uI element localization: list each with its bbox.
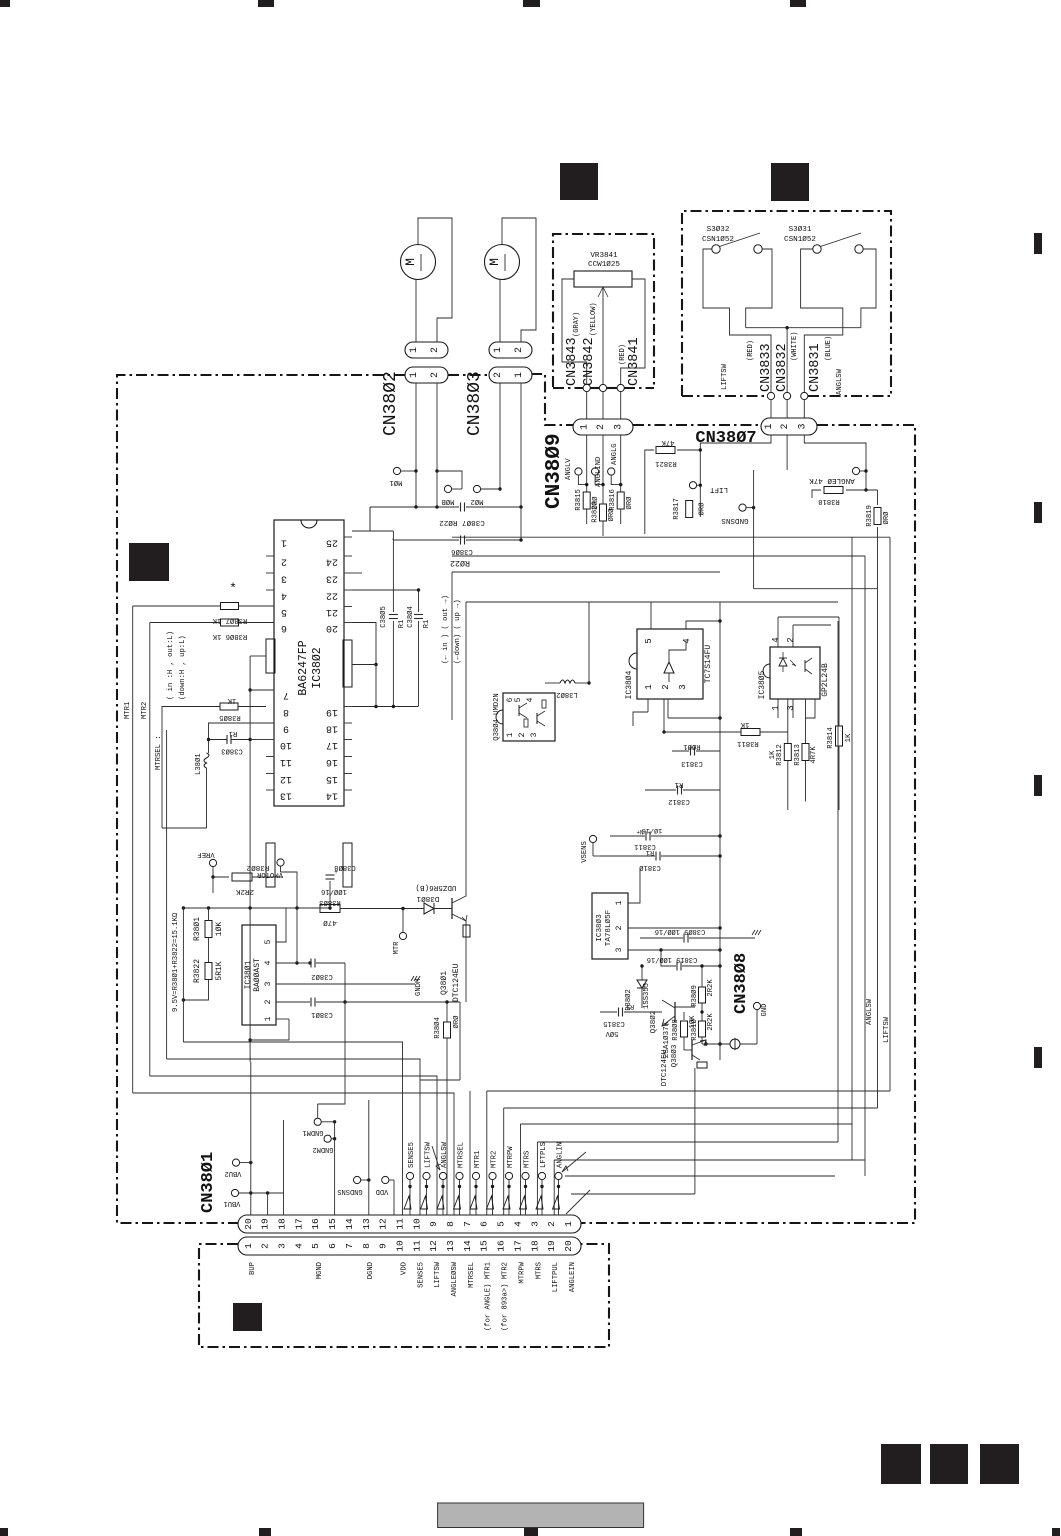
terminal SENSE5 [406, 1172, 413, 1179]
svg-text:2: 2 [596, 424, 607, 430]
bus left verticals [182, 908, 184, 1042]
wire VREF node down [211, 875, 214, 878]
IC3801 pin5 wire to rail [276, 908, 286, 942]
terminal VSENS [589, 835, 596, 842]
ferrite bead symbol [730, 1039, 740, 1049]
resistor R3808 10K [683, 1012, 685, 1020]
IC3803 pin3 wire [628, 949, 720, 951]
svg-text:24: 24 [326, 556, 338, 567]
svg-text:2: 2 [615, 925, 624, 930]
fold mark square in bottom label box [233, 1303, 262, 1331]
node rail y540 with C3806 [393, 539, 459, 541]
svg-text:Q38Ø3: Q38Ø3 [670, 1044, 679, 1067]
inductor L3802 [560, 680, 575, 683]
capacitor C3812 R1 [645, 789, 676, 791]
svg-text:3: 3 [281, 573, 287, 584]
terminal VBU1 [231, 1189, 238, 1196]
terminal M02 [473, 485, 480, 492]
wire Q3803 emitter down [694, 1068, 696, 1194]
svg-text:5: 5 [310, 1243, 321, 1249]
wire pin21-ish corner right [451, 572, 453, 720]
svg-text:2: 2 [661, 684, 671, 689]
svg-text:(YELLOW): (YELLOW) [590, 302, 598, 336]
svg-text:MTR1: MTR1 [124, 702, 132, 719]
svg-text:R381Ø: R381Ø [690, 1019, 699, 1041]
wire L3801 down [206, 768, 208, 828]
svg-text:TA78LØ5F: TA78LØ5F [604, 909, 613, 946]
svg-text:47K: 47K [661, 438, 675, 446]
svg-text:CSN1Ø52: CSN1Ø52 [702, 235, 734, 244]
svg-text:2: 2 [780, 423, 791, 429]
svg-text:2: 2 [518, 732, 527, 737]
svg-text:CN38Ø7: CN38Ø7 [695, 429, 756, 448]
svg-text:D38Ø1: D38Ø1 [416, 894, 439, 903]
Q3802 collector resistors [675, 1006, 695, 1008]
wire CN3807 pin2 down [786, 435, 788, 470]
svg-text:IC38Ø1: IC38Ø1 [244, 960, 253, 989]
wires VBU columns [250, 1163, 252, 1215]
svg-text:4: 4 [293, 1243, 304, 1249]
wire pin7 net [250, 655, 266, 657]
svg-text:47Ø: 47Ø [323, 918, 337, 927]
connector CN3802 socket [405, 367, 448, 383]
svg-text:CN3843: CN3843 [565, 337, 580, 386]
svg-text:7: 7 [462, 1221, 473, 1227]
IC3802 BA6247FP body [274, 520, 344, 806]
svg-text:VDD: VDD [400, 1262, 408, 1275]
svg-text:C3815: C3815 [603, 1019, 625, 1027]
terminal GNDM2 [324, 1135, 331, 1142]
wire pin2 branch down to rail [436, 471, 438, 507]
bottom edge tick x1052 [1052, 1528, 1060, 1536]
page number square bottom-right 2 [930, 1444, 968, 1484]
svg-text:9: 9 [378, 1243, 389, 1249]
wire CN3809 pin2 down [602, 435, 604, 504]
svg-text:MØB: MØB [441, 497, 455, 506]
capacitor C3803 R1 [226, 735, 228, 744]
svg-text:20: 20 [326, 622, 338, 633]
svg-text:5ØV: 5ØV [605, 1029, 619, 1038]
direction flags row [404, 1196, 411, 1209]
resistor R3816 0R0 [617, 492, 624, 509]
terminal MTR1 [472, 1172, 479, 1179]
svg-text:21: 21 [326, 606, 338, 617]
svg-text:CCW1Ø25: CCW1Ø25 [588, 260, 620, 269]
registration mark top x263 [258, 0, 274, 7]
svg-text:15: 15 [327, 1218, 338, 1230]
vertical pin7 bus down [249, 908, 251, 1062]
wire common to CN3832 [786, 328, 788, 393]
svg-text:Q38Ø1: Q38Ø1 [440, 971, 449, 995]
svg-text:(WHITE): (WHITE) [791, 332, 799, 361]
svg-text:VSENS: VSENS [581, 841, 589, 863]
svg-text:MTRSEL: MTRSEL [468, 1262, 476, 1288]
wire motor1 loop to pin2 [418, 218, 452, 342]
svg-text:GNDSNS: GNDSNS [337, 1187, 362, 1195]
svg-text:Q38Ø4 UMD2N: Q38Ø4 UMD2N [492, 693, 501, 740]
svg-text:1: 1 [764, 423, 775, 429]
junction circle CN3842 [599, 384, 606, 391]
svg-text:9: 9 [428, 1221, 439, 1227]
resistor R3807 1K [221, 603, 239, 610]
wire IC3804 pin4 top [686, 621, 720, 629]
capacitor C3811 10/16 [610, 835, 645, 837]
resistor R3823 0R0 [600, 504, 607, 521]
terminal ANGLG [608, 468, 615, 475]
svg-text:14: 14 [344, 1218, 355, 1230]
IC3802 left tab lower [266, 843, 275, 887]
svg-text:17: 17 [326, 739, 338, 750]
svg-text:R38Ø4: R38Ø4 [433, 1017, 442, 1039]
svg-text:ANGLEIN: ANGLEIN [569, 1262, 577, 1292]
resistor R3818 47K [824, 487, 843, 494]
svg-text:(←down) ( up →): (←down) ( up →) [454, 599, 462, 664]
svg-text:5: 5 [644, 638, 654, 643]
svg-text:MGND: MGND [316, 1262, 324, 1279]
fold mark square upper-middle-right [771, 163, 809, 201]
wire left of rail y507 to IC pin25 col [352, 507, 370, 531]
registration mark right edge y512 [1034, 502, 1042, 523]
connector CN3801 row A [238, 1215, 581, 1233]
svg-text:12: 12 [280, 773, 292, 784]
terminal ANGLSW [439, 1172, 446, 1179]
wire IC3804 pin2 bottom [667, 699, 669, 718]
VR3841 left leg wire [562, 279, 587, 384]
terminal LFTPLS [538, 1172, 545, 1179]
svg-text:1: 1 [493, 347, 504, 353]
svg-text:3: 3 [277, 1243, 288, 1249]
terminal M0B [444, 485, 451, 492]
wire Q3803 collector to CN3808 [705, 1040, 707, 1044]
main flex border dash-dot box [117, 375, 405, 1223]
connector CN3803 plug [489, 342, 532, 358]
terminal VMOTOR [277, 859, 284, 866]
svg-text:25: 25 [326, 537, 338, 548]
terminal MTR [399, 932, 406, 939]
wire CN3802 pin1 down [415, 383, 417, 507]
svg-text:2: 2 [546, 1221, 557, 1227]
common rail of switches [746, 327, 861, 329]
svg-text:5: 5 [514, 697, 523, 702]
svg-text:R38Ø1: R38Ø1 [193, 917, 202, 941]
bottom edge tick x260 [259, 1528, 271, 1536]
svg-text:2: 2 [430, 347, 441, 353]
registration mark right edge y1057 [1034, 1047, 1042, 1068]
IC3801 BA00AST body [242, 925, 276, 1025]
gray footer bar [438, 1503, 644, 1528]
svg-text:1: 1 [243, 1243, 254, 1249]
svg-text:S3Ø31: S3Ø31 [789, 225, 812, 234]
wire pin25 net [352, 530, 370, 532]
junction circles to CN3807 [767, 392, 774, 399]
svg-text:16: 16 [326, 756, 338, 767]
svg-text:LIFT: LIFT [709, 485, 728, 493]
svg-text:12: 12 [378, 1218, 389, 1230]
svg-text:10: 10 [394, 1240, 405, 1252]
IC3803 pin2 wire [628, 927, 720, 929]
svg-text:IC38Ø4: IC38Ø4 [625, 670, 634, 699]
resistor R3805 1K [220, 703, 238, 710]
svg-text:2: 2 [260, 1243, 271, 1249]
potentiometer VR3841 body [574, 271, 632, 287]
connector CN3802 plug [405, 342, 448, 358]
svg-text:C3819 1ØØ/16: C3819 1ØØ/16 [647, 955, 697, 964]
rail y908 [183, 907, 330, 909]
svg-text:3: 3 [529, 1221, 540, 1227]
wire CN3803 pin1 down [499, 383, 501, 489]
wire opto emitter down [806, 699, 816, 718]
svg-text:LIFTSW: LIFTSW [434, 1261, 442, 1288]
svg-text:(GRAY): (GRAY) [573, 312, 581, 337]
svg-text:13: 13 [361, 1218, 372, 1230]
svg-text:C38Ø3: C38Ø3 [221, 747, 243, 756]
svg-text:LIFTPUL: LIFTPUL [552, 1262, 560, 1292]
svg-text:BAØØAST: BAØØAST [253, 958, 262, 992]
svg-text:ANGLSW: ANGLSW [836, 368, 844, 395]
terminal VBU2 [232, 1159, 239, 1166]
svg-text:1K: 1K [740, 720, 749, 728]
svg-text:IC38Ø2: IC38Ø2 [311, 647, 324, 689]
resistor R3819 0R0 [877, 490, 879, 505]
svg-text:R3815: R3815 [575, 489, 583, 511]
svg-text:VREF: VREF [197, 850, 214, 858]
svg-text:17: 17 [293, 1218, 304, 1229]
long horizontals right to left [487, 1090, 890, 1092]
terminal M01 [393, 467, 400, 474]
svg-text:20: 20 [243, 1218, 254, 1230]
svg-text:2: 2 [493, 372, 504, 378]
misc long verticals center [446, 1078, 448, 1215]
terminal MTR2 [489, 1172, 496, 1179]
svg-text:1: 1 [771, 705, 781, 710]
svg-text:C38Ø2: C38Ø2 [311, 972, 333, 981]
svg-text:M: M [487, 258, 502, 266]
registration mark right edge y785 [1034, 775, 1042, 796]
bus verticals right side [837, 621, 839, 1142]
svg-text:7: 7 [344, 1243, 355, 1249]
capacitor C3807 R022 [460, 503, 462, 512]
svg-text:CN3841: CN3841 [627, 337, 642, 386]
svg-text:TC7S14FU: TC7S14FU [704, 645, 713, 684]
registration mark right edge y243 [1034, 233, 1042, 254]
svg-text:1: 1 [409, 372, 420, 378]
bottom edge tick x524 [524, 1528, 538, 1536]
svg-text:13: 13 [280, 790, 292, 801]
resistor R3811 1K [741, 729, 760, 736]
arrow to ANGLIN [562, 1152, 586, 1172]
svg-text:10: 10 [280, 739, 292, 750]
svg-text:8: 8 [445, 1221, 456, 1227]
svg-text:2R2K: 2R2K [707, 1013, 715, 1031]
wire R3807 to pin5 [239, 605, 275, 607]
wire CN3807 pin3 down-right [804, 435, 866, 490]
wire R3803 right to D3801 [340, 908, 424, 910]
svg-text:MTRSEL: MTRSEL [458, 1142, 466, 1168]
resistor R3815 0R0 [583, 492, 590, 509]
svg-text:2R2K: 2R2K [707, 979, 715, 997]
svg-text:(RED): (RED) [747, 340, 755, 361]
svg-text:S3Ø32: S3Ø32 [707, 225, 730, 234]
svg-text:2: 2 [264, 999, 273, 1004]
resistor R3810 2R2K [699, 1021, 706, 1037]
terminal LIFT [689, 482, 696, 489]
arrow to LIFTSW [432, 1146, 440, 1170]
svg-text:R3814: R3814 [827, 727, 835, 749]
wire horizontals upper mid [720, 601, 838, 603]
svg-text:1: 1 [580, 424, 591, 430]
svg-text:R38Ø7 1K: R38Ø7 1K [212, 616, 247, 625]
svg-text:R3811: R3811 [737, 739, 759, 747]
svg-text:R38Ø8: R38Ø8 [671, 1019, 680, 1041]
wires VR to CN3809 [586, 392, 588, 419]
wire pin20 right [352, 622, 362, 624]
svg-text:MTRS: MTRS [524, 1151, 532, 1168]
svg-text:C38Ø4: C38Ø4 [406, 606, 415, 628]
fold mark square left of IC3802 [129, 543, 169, 581]
svg-text:23: 23 [326, 573, 338, 584]
switch S3032 contacts [712, 245, 720, 253]
svg-text:ANGLIN: ANGLIN [557, 1142, 565, 1168]
terminal GNDSNS bottom [354, 1176, 361, 1183]
svg-text:R1: R1 [626, 1002, 634, 1010]
svg-text:R1: R1 [229, 729, 238, 737]
svg-text:CN3833: CN3833 [759, 343, 774, 392]
IC3801 pin1 wire [276, 1018, 289, 1020]
connector CN3801 row B [238, 1237, 581, 1255]
connector CN3809 [573, 419, 633, 435]
svg-text:R38Ø3: R38Ø3 [319, 898, 341, 907]
svg-text:1: 1 [506, 732, 515, 737]
VR3841 wiper arrow [602, 287, 604, 384]
resistor R3814 1K [838, 617, 840, 726]
IC3804 TC7S14FU body [637, 629, 703, 699]
wire CN3803 pin2 down [520, 383, 522, 540]
svg-text:1: 1 [514, 372, 525, 378]
wire motor2 pin1 [499, 280, 501, 343]
svg-text:LIFTSW: LIFTSW [425, 1141, 433, 1168]
svg-text:ØRØ: ØRØ [698, 502, 707, 516]
junction circle CN3843 [583, 384, 590, 391]
svg-text:IC38Ø3: IC38Ø3 [595, 914, 604, 942]
wire IC3804 pin1 down [647, 699, 649, 712]
svg-text:2: 2 [786, 637, 796, 642]
svg-text:VBU1: VBU1 [224, 1199, 241, 1207]
svg-text:ANGLG: ANGLG [611, 443, 619, 465]
wire pin19 rail [352, 706, 419, 708]
svg-text:DGND: DGND [367, 1262, 375, 1279]
capacitor C3813 R001 [672, 750, 689, 752]
svg-text:CN3831: CN3831 [808, 343, 823, 392]
node rail y507 with C3807 [370, 506, 459, 508]
CN3801 pin-name dash-dot box [199, 1244, 609, 1347]
svg-text:4R7K: 4R7K [810, 746, 818, 764]
svg-text:4: 4 [771, 637, 781, 642]
svg-text:MØ2: MØ2 [471, 497, 484, 506]
lift/angle switch unit dash-dot box [682, 211, 891, 396]
wire CN3809 pin3 down [620, 435, 622, 492]
svg-text:19: 19 [260, 1218, 271, 1230]
page number square bottom-right 3 [980, 1444, 1019, 1484]
svg-text:R38Ø2: R38Ø2 [246, 863, 269, 872]
connector CN3807 [761, 418, 817, 435]
svg-text:GNDM1: GNDM1 [302, 1128, 323, 1136]
IC3804 inverter symbol [664, 662, 674, 673]
svg-text:R3817: R3817 [673, 498, 681, 520]
svg-text:(down:H , up:L): (down:H , up:L) [179, 635, 187, 700]
svg-text:Q38Ø2: Q38Ø2 [649, 1010, 658, 1033]
terminal LIFTSW [423, 1172, 430, 1179]
svg-text:3: 3 [615, 947, 624, 952]
svg-text:4: 4 [512, 1221, 523, 1227]
svg-text:2: 2 [514, 347, 525, 353]
svg-text:MTR1: MTR1 [474, 1151, 482, 1168]
capacitor C3815 50V R1 [600, 1011, 617, 1013]
wire pin22 to C3804 [352, 589, 419, 591]
wire GNDM column [334, 1122, 336, 1215]
svg-text:SENSE5: SENSE5 [408, 1142, 416, 1168]
svg-text:ANGLEØSW: ANGLEØSW [450, 1261, 459, 1296]
svg-text:GNDSNS: GNDSNS [721, 516, 749, 524]
svg-text:VBU2: VBU2 [225, 1169, 242, 1177]
svg-text:M: M [403, 258, 418, 266]
svg-text:DTC124EU: DTC124EU [661, 1049, 669, 1086]
svg-text:R3818: R3818 [818, 497, 840, 505]
wire M0B jog [437, 471, 462, 489]
page number square bottom-right 1 [881, 1444, 921, 1484]
capacitor C3802 1 [276, 983, 297, 985]
svg-text:5: 5 [264, 939, 273, 944]
terminal MTRS [522, 1172, 529, 1179]
terminal VDD bottom [382, 1176, 389, 1183]
wire right tab loop [352, 623, 376, 707]
svg-text:CN3842: CN3842 [582, 337, 597, 386]
svg-text:1: 1 [644, 684, 654, 689]
registration mark top x792 [790, 0, 806, 7]
wire rail y540 down-left [392, 539, 394, 540]
resistor R3806 1K [221, 619, 239, 626]
IC3805 led and phototransistor [779, 658, 787, 666]
svg-text:4: 4 [682, 638, 692, 643]
switch S3032 right contact wire [762, 249, 772, 254]
bus MTR1 vertical [132, 606, 134, 1093]
svg-text:2: 2 [281, 556, 287, 567]
bus vertical x664 [663, 699, 665, 732]
wire motor1 pin1 [415, 280, 417, 343]
switch S3031 contacts [813, 245, 821, 253]
connector CN3803 socket [489, 367, 532, 383]
svg-text:R38Ø9: R38Ø9 [690, 985, 699, 1007]
svg-text:18: 18 [326, 723, 338, 734]
wires below CN3809 resistors [586, 509, 588, 524]
bottom edge tick x0 [0, 1528, 8, 1536]
wire R3806 to pin6 [239, 622, 275, 624]
svg-text:3: 3 [264, 981, 273, 986]
Q3801 drive wires [465, 602, 467, 880]
svg-text:RØØ1: RØØ1 [683, 742, 700, 751]
svg-text:5: 5 [496, 1221, 507, 1227]
VR3841 unit dash-dot box [553, 234, 654, 387]
svg-text:LIFTSW: LIFTSW [721, 363, 729, 390]
svg-text:R3821: R3821 [655, 459, 677, 467]
svg-text:1: 1 [281, 537, 287, 548]
svg-text:R38Ø5: R38Ø5 [219, 713, 241, 722]
svg-text:8: 8 [361, 1243, 372, 1249]
svg-text:8: 8 [283, 706, 289, 717]
wire CN3802 pin2 down [436, 383, 438, 471]
svg-text:CN38Ø1: CN38Ø1 [199, 1152, 218, 1213]
svg-text:6: 6 [479, 1221, 490, 1227]
IC3802 left tab [266, 639, 275, 673]
